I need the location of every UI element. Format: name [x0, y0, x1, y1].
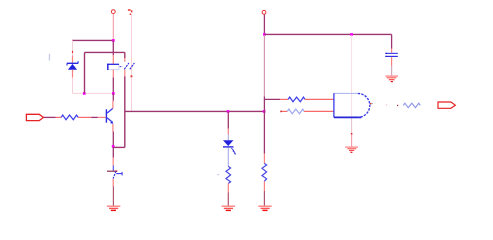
- pin R1 right: [78, 116, 91, 118]
- ground GND5: [258, 206, 272, 210]
- junction dot J5: [227, 110, 230, 113]
- relay contact S1 pin bottom: [124, 70, 126, 77]
- wire LED branch down: [227, 111, 229, 128]
- capacitor C1 pin top: [391, 34, 393, 52]
- ground GND1: [107, 206, 121, 210]
- wire R3 to ground: [263, 191, 265, 206]
- wire R1 to base: [91, 116, 98, 118]
- pin R2 bottom: [227, 183, 229, 192]
- power symbol P2 faded: [128, 9, 132, 15]
- wire top right horizontal: [264, 33, 391, 35]
- junction dot J4: [83, 92, 86, 95]
- pin R5 left: [282, 110, 287, 112]
- port P2 output: [438, 102, 455, 108]
- switch SW2 blade: [113, 171, 116, 178]
- junction dot J3: [112, 145, 115, 148]
- pin R3 bottom: [263, 181, 265, 191]
- pin LED anode: [227, 129, 229, 141]
- pin relay coil bottom: [112, 70, 114, 78]
- wire faint row y93: [73, 92, 114, 94]
- wire Pi top bar: [85, 51, 125, 53]
- wire to top input corner: [263, 97, 265, 112]
- pin R3 top: [263, 154, 265, 164]
- wire coil bottom to J2: [112, 78, 114, 94]
- wire W1 top horizontal: [72, 39, 114, 41]
- junction dot J2: [112, 92, 115, 95]
- wire J2 down: [112, 93, 114, 100]
- wire P1 stub down: [112, 14, 114, 40]
- wire bottom input: [280, 111, 282, 113]
- wire Pi left leg: [84, 52, 86, 93]
- AND gate U1: [334, 93, 370, 117]
- ground GND3 below capacitor: [385, 76, 398, 82]
- capacitor C1 pin bottom: [391, 57, 393, 75]
- pin SW2 top: [112, 158, 114, 166]
- wire zener top faded: [72, 40, 74, 55]
- resistor R1: [61, 115, 78, 120]
- wire right leg vertical long: [124, 76, 126, 147]
- pin R5 right to gate: [304, 110, 334, 112]
- transistor Q1 NPN: [106, 109, 114, 124]
- wire faded net P2 down: [131, 14, 133, 111]
- pin zener cathode: [72, 55, 74, 63]
- wire port to R1: [44, 116, 56, 118]
- wire loop horizontal: [113, 146, 125, 148]
- resistor R5 pale: [287, 109, 304, 114]
- wire Pi right leg: [124, 52, 126, 58]
- pin R4 left: [280, 98, 288, 100]
- wire main horizontal: [125, 110, 265, 112]
- port P1 input: [26, 114, 43, 120]
- ground GND2 below gate: [345, 147, 358, 152]
- pin Q1 base: [98, 116, 106, 118]
- relay linkage dashes: [120, 66, 123, 68]
- wire R2 to ground: [227, 193, 229, 207]
- switch SW2 side terminal: [116, 172, 122, 176]
- text remnant I: [49, 54, 50, 61]
- text remnant dash: [217, 174, 219, 175]
- pin SW2 bottom: [112, 179, 114, 186]
- relay contact S1 blades: [124, 63, 134, 69]
- wire R3 branch down: [263, 111, 265, 153]
- pin relay coil top: [112, 55, 114, 64]
- power bubble P3: [262, 10, 266, 14]
- wire top input horizontal: [264, 98, 280, 100]
- pin Q1 emitter: [112, 124, 114, 132]
- junction dot J6: [263, 110, 266, 113]
- gate output pin marks: [370, 103, 398, 106]
- wire zener anode faded: [72, 78, 74, 94]
- wire P3 down: [263, 15, 265, 35]
- pin R4 right to gate: [305, 98, 334, 100]
- wire hidden power column pale: [351, 35, 353, 146]
- pin zener anode: [72, 70, 74, 78]
- pin LED cathode: [227, 148, 229, 167]
- switch SW2 bar: [107, 170, 117, 172]
- zener diode D1: [67, 61, 78, 70]
- wire emitter down: [112, 132, 114, 148]
- wire J1 down to coil: [112, 40, 114, 55]
- wire J3 to SW2: [112, 147, 114, 157]
- resistor R2: [226, 166, 231, 183]
- junction dot J1: [112, 39, 115, 42]
- junction dot J7: [263, 33, 266, 36]
- capacitor C1: [385, 53, 398, 57]
- ground GND4: [222, 206, 236, 210]
- relay coil K1: [107, 64, 119, 70]
- relay contact S1 pin top: [124, 58, 126, 62]
- wire P3 column faded: [263, 35, 265, 96]
- resistor R3: [262, 163, 267, 181]
- junction dot J8: [350, 33, 353, 36]
- wire SW2 to ground: [112, 186, 114, 206]
- power bubble P1: [111, 10, 115, 14]
- pin R1 left: [56, 116, 61, 118]
- switch SW2 fixed terminal: [112, 165, 114, 171]
- resistor R4: [288, 97, 305, 102]
- resistor R6 pale output: [403, 103, 420, 107]
- LED D2: [223, 140, 236, 154]
- pin Q1 collector: [112, 101, 114, 109]
